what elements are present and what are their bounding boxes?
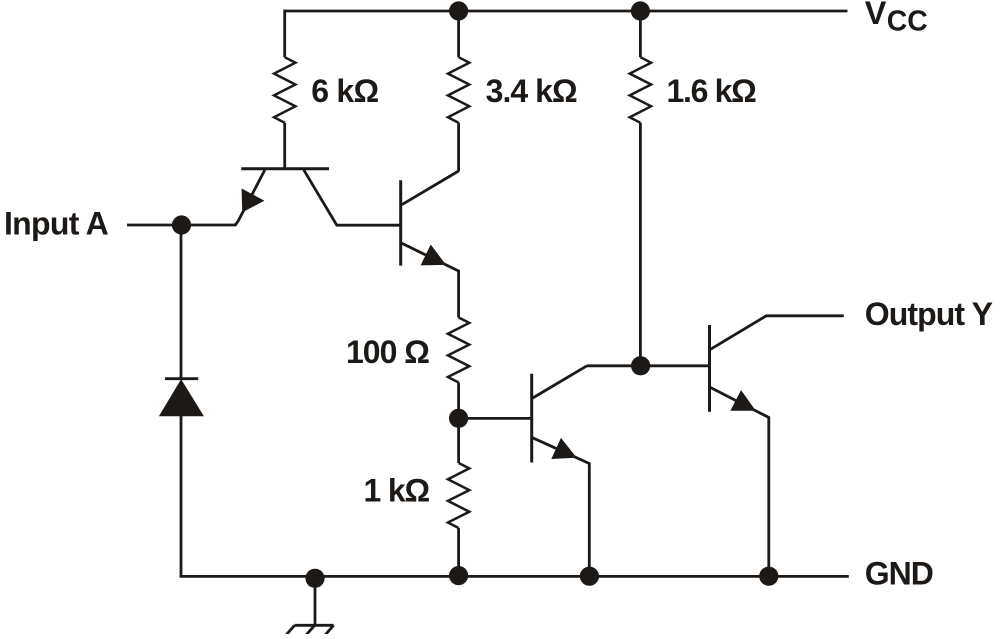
- svg-text:Output Y: Output Y: [865, 296, 993, 332]
- svg-text:CC: CC: [887, 5, 928, 37]
- svg-text:Input A: Input A: [4, 205, 109, 241]
- svg-text:100 Ω: 100 Ω: [346, 334, 429, 370]
- svg-text:GND: GND: [865, 555, 933, 591]
- svg-text:V: V: [865, 0, 887, 31]
- svg-text:1.6 kΩ: 1.6 kΩ: [667, 73, 757, 109]
- svg-text:1 kΩ: 1 kΩ: [364, 472, 430, 508]
- svg-text:3.4 kΩ: 3.4 kΩ: [486, 73, 577, 109]
- svg-text:6 kΩ: 6 kΩ: [311, 73, 378, 109]
